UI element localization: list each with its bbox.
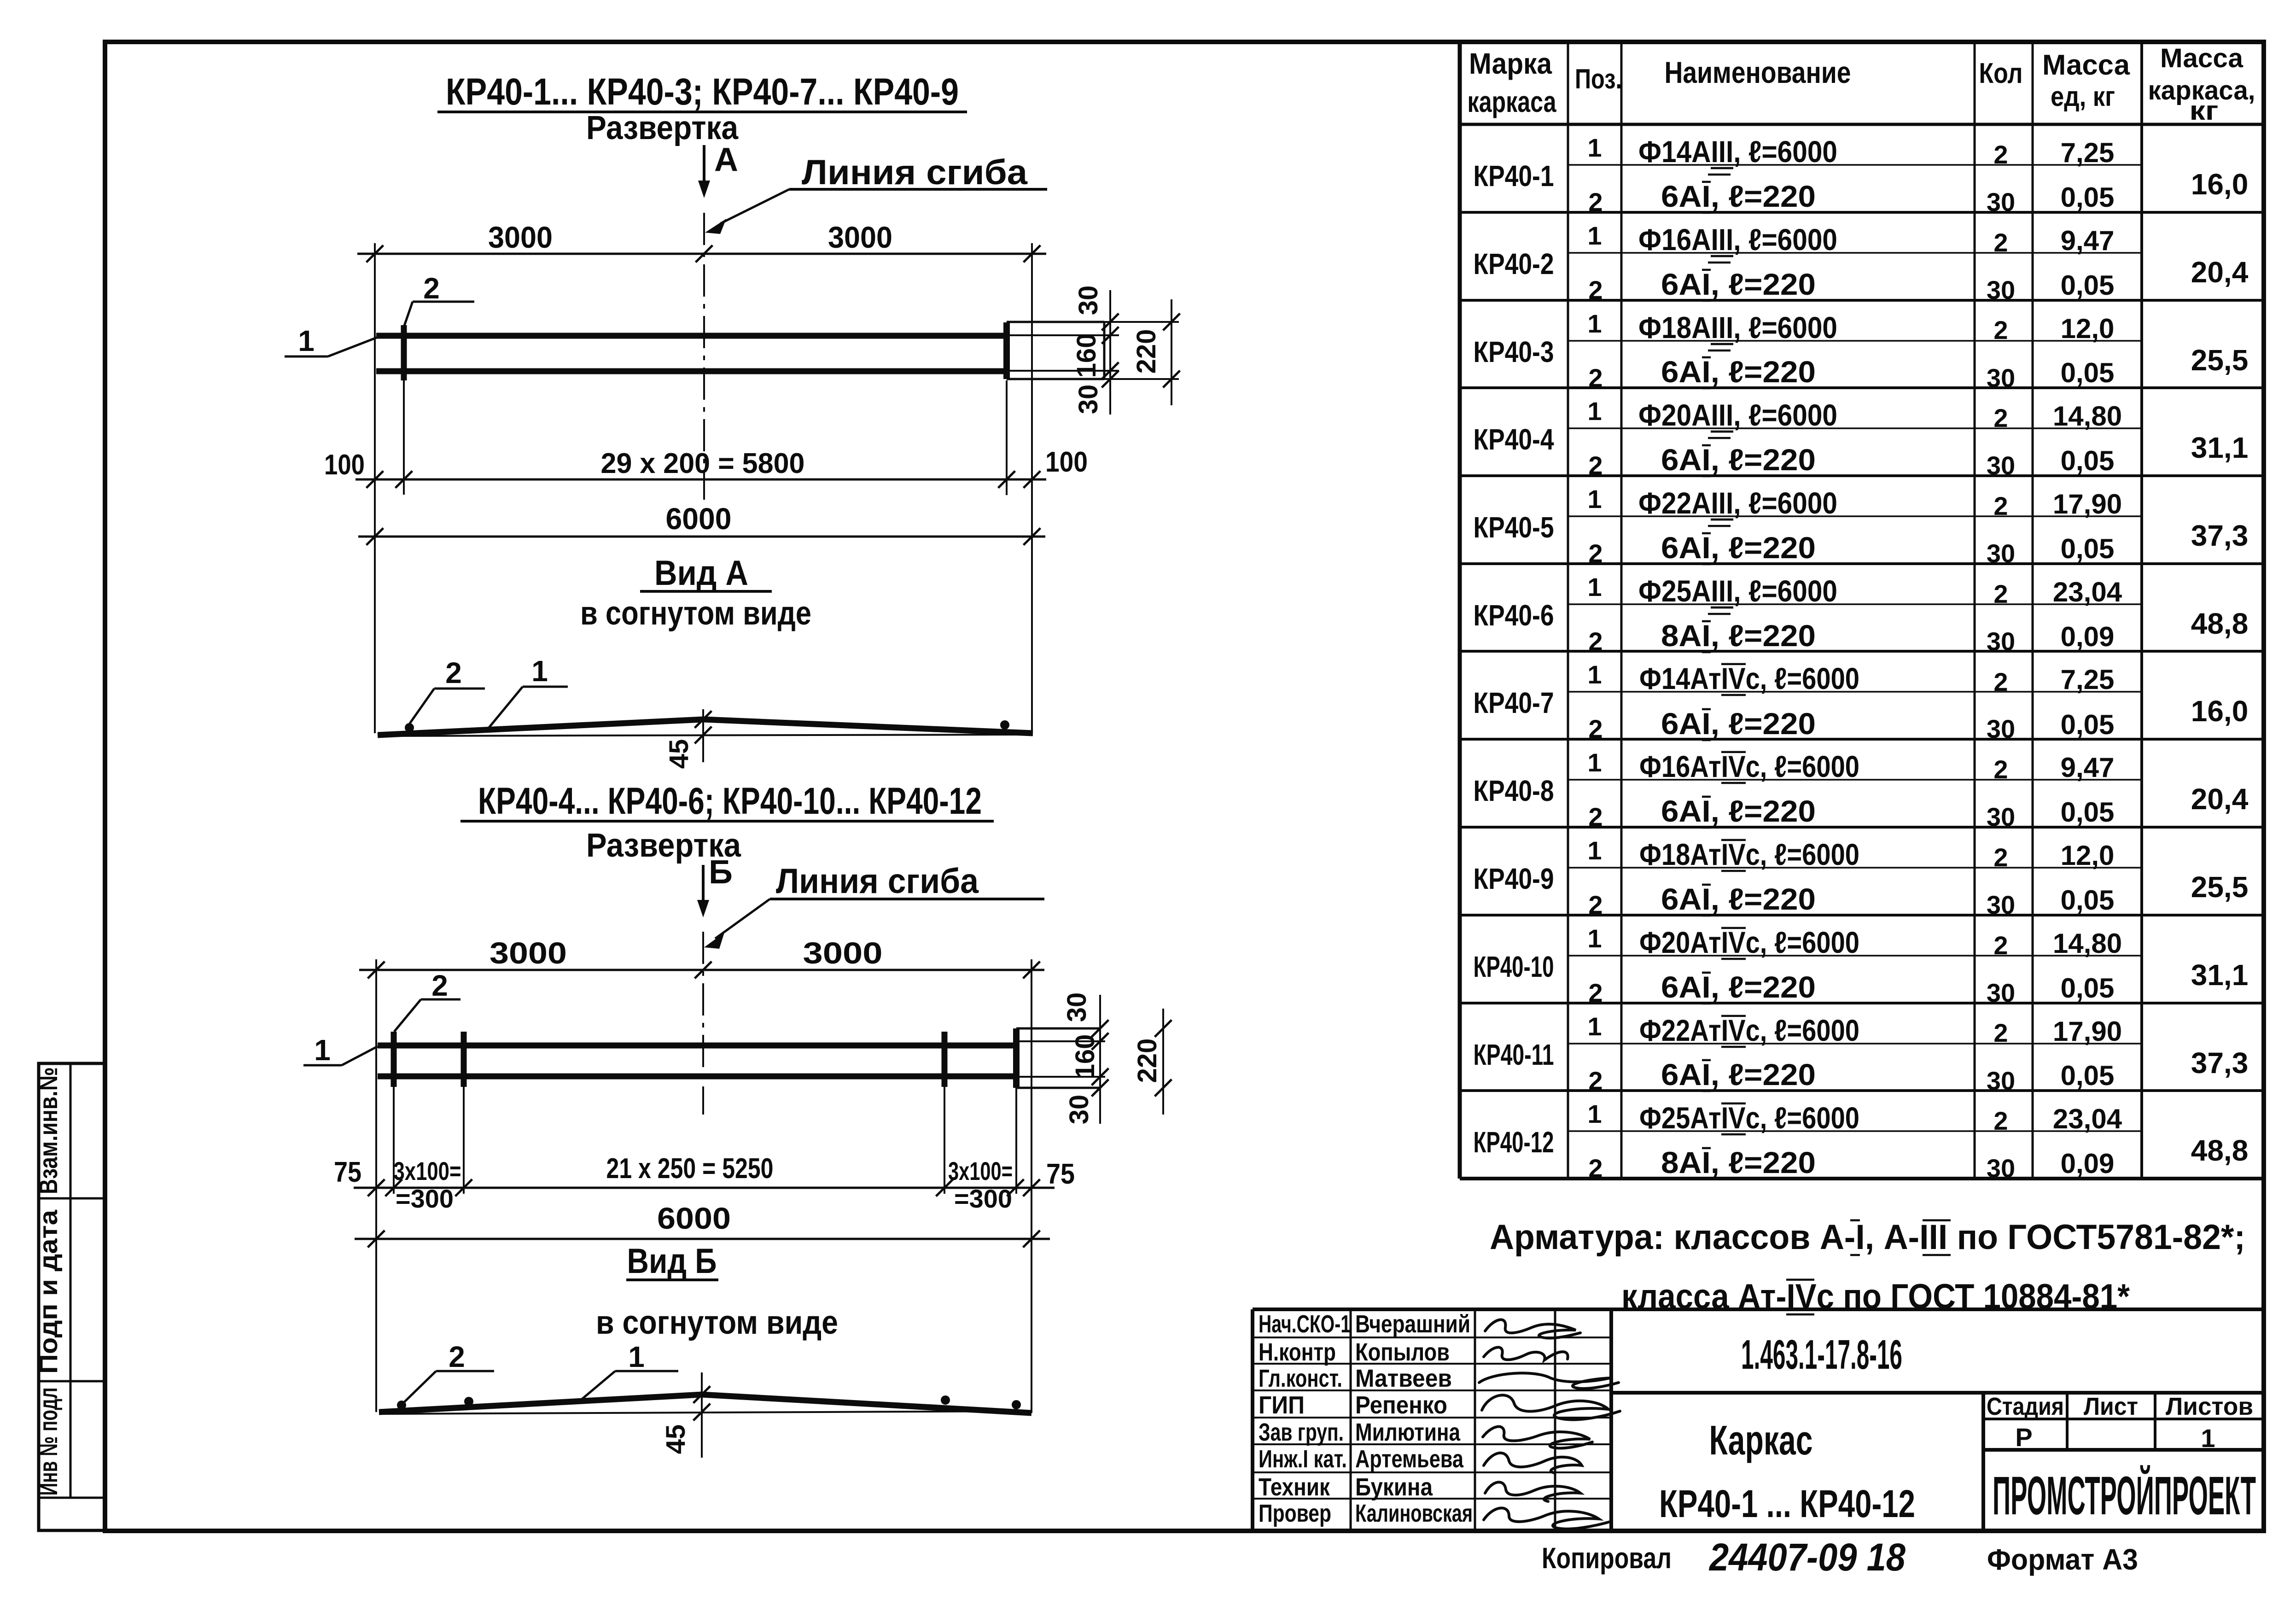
dimension 45 (view A) <box>664 709 711 769</box>
svg-text:25,5: 25,5 <box>2191 344 2249 377</box>
svg-text:1: 1 <box>2201 1424 2215 1453</box>
svg-text:КР40-1... КР40-3; КР40-7... КР: КР40-1... КР40-3; КР40-7... КР40-9 <box>446 71 959 113</box>
svg-text:Н.контр: Н.контр <box>1259 1338 1336 1366</box>
svg-text:КР40-2: КР40-2 <box>1474 247 1554 280</box>
dimension line 6000 (drawing B) <box>355 1201 1050 1247</box>
svg-text:6АI, ℓ=220: 6АI, ℓ=220 <box>1661 531 1816 565</box>
svg-text:30: 30 <box>1073 286 1103 315</box>
svg-text:220: 220 <box>1131 329 1161 374</box>
cross bar dots view B <box>397 1395 1021 1410</box>
svg-text:Подп и дата: Подп и дата <box>34 1209 63 1374</box>
footer handwritten 24407-09 18 <box>1708 1535 1906 1579</box>
stamp row Гл.конст. Матвеев <box>1259 1365 1452 1392</box>
svg-text:12,0: 12,0 <box>2061 840 2115 871</box>
table row КР40-11 <box>1474 1012 2249 1095</box>
svg-text:6АI, ℓ=220: 6АI, ℓ=220 <box>1661 1057 1816 1092</box>
svg-text:3000: 3000 <box>803 936 883 970</box>
svg-text:Марка: Марка <box>1469 47 1552 80</box>
svg-text:30: 30 <box>1987 451 2015 480</box>
reinforcement note line 1 <box>1490 1218 2245 1257</box>
svg-text:Ф20АтIVс, ℓ=6000: Ф20АтIVс, ℓ=6000 <box>1639 925 1859 959</box>
svg-text:Развертка: Развертка <box>586 110 739 146</box>
dimension line 75/300/5250/300/75 (drawing B) <box>334 1153 1075 1213</box>
svg-text:30: 30 <box>1987 890 2015 919</box>
cross bar pos.2 right (drawing B) <box>942 1032 948 1194</box>
bent end bar + flap (drawing B) <box>1016 1028 1105 1194</box>
svg-text:2: 2 <box>1588 1066 1603 1095</box>
table row КР40-12 <box>1474 1099 2249 1183</box>
dimension line 100 / 29x200=5800 / 100 (drawing A) <box>324 380 1088 495</box>
svg-text:48,8: 48,8 <box>2191 607 2249 640</box>
stamp row Зав груп. Милютина <box>1259 1419 1461 1446</box>
svg-text:=300: =300 <box>954 1184 1012 1213</box>
svg-text:Инж.I кат.: Инж.I кат. <box>1259 1445 1347 1473</box>
document number 1.463.1-17.8-16 <box>1741 1332 1902 1378</box>
svg-text:0,05: 0,05 <box>2061 709 2115 740</box>
extension line left (drawing B) <box>375 959 377 1412</box>
svg-text:1: 1 <box>298 324 315 357</box>
svg-text:30: 30 <box>1987 187 2015 216</box>
svg-text:2: 2 <box>1993 140 2008 169</box>
reinforcement note line 2 <box>1621 1277 2130 1316</box>
stamp row Н.контр Копылов <box>1259 1338 1450 1366</box>
mini table headers Стадия Лист Листов <box>1987 1393 2253 1453</box>
leader 2 (drawing A) <box>404 272 474 326</box>
table row КР40-8 <box>1474 748 2249 831</box>
svg-text:Милютина: Милютина <box>1355 1419 1461 1446</box>
svg-text:2: 2 <box>1588 275 1603 304</box>
svg-text:Инв № подл: Инв № подл <box>34 1388 63 1496</box>
svg-text:Вид А: Вид А <box>654 554 748 593</box>
svg-text:КР40-3: КР40-3 <box>1474 335 1554 368</box>
svg-text:2: 2 <box>1993 315 2008 344</box>
svg-text:Матвеев: Матвеев <box>1355 1365 1452 1392</box>
svg-text:6АI, ℓ=220: 6АI, ℓ=220 <box>1661 882 1816 916</box>
drawing B subtitle Развертка <box>586 827 741 864</box>
table row КР40-6 <box>1474 572 2249 656</box>
svg-text:Ф22АIII, ℓ=6000: Ф22АIII, ℓ=6000 <box>1638 486 1837 520</box>
svg-text:6АI, ℓ=220: 6АI, ℓ=220 <box>1661 267 1816 301</box>
extension line left (drawing A) <box>374 243 376 733</box>
svg-text:2: 2 <box>1993 931 2008 960</box>
svg-text:2: 2 <box>431 969 448 1002</box>
bar pos.1 bottom chord (drawing A) <box>376 368 1006 374</box>
svg-text:23,04: 23,04 <box>2053 1103 2122 1134</box>
svg-text:Лист: Лист <box>2084 1393 2138 1420</box>
svg-text:Стадия: Стадия <box>1987 1393 2064 1420</box>
svg-text:2: 2 <box>1993 1106 2008 1135</box>
leader 2 (view B) <box>402 1340 494 1404</box>
signature scribbles <box>1479 1319 1620 1529</box>
svg-text:Ф18АтIVс, ℓ=6000: Ф18АтIVс, ℓ=6000 <box>1639 837 1859 871</box>
svg-text:1: 1 <box>531 654 548 688</box>
svg-text:21 x 250 = 5250: 21 x 250 = 5250 <box>606 1153 774 1185</box>
svg-text:0,05: 0,05 <box>2061 357 2115 388</box>
svg-text:2: 2 <box>1993 1018 2008 1047</box>
cross bar pos.2 left (drawing A) <box>401 325 407 495</box>
table row КР40-2 <box>1474 221 2249 304</box>
svg-text:2: 2 <box>1588 802 1603 831</box>
svg-text:25,5: 25,5 <box>2191 870 2249 904</box>
svg-text:3000: 3000 <box>488 220 553 254</box>
svg-text:0,05: 0,05 <box>2061 445 2115 476</box>
svg-text:Техник: Техник <box>1259 1473 1330 1501</box>
svg-text:1: 1 <box>1587 836 1602 865</box>
svg-text:0,05: 0,05 <box>2061 797 2115 828</box>
svg-text:6АI, ℓ=220: 6АI, ℓ=220 <box>1661 794 1816 828</box>
svg-text:Артемьева: Артемьева <box>1355 1445 1464 1473</box>
svg-text:0,05: 0,05 <box>2061 533 2115 564</box>
svg-text:75: 75 <box>1046 1158 1075 1190</box>
leader 1 (view B) <box>577 1340 678 1403</box>
extension line right (drawing B) <box>1031 959 1032 1413</box>
svg-text:20,4: 20,4 <box>2191 256 2249 289</box>
svg-text:37,3: 37,3 <box>2191 1046 2249 1080</box>
svg-text:Каркас: Каркас <box>1709 1418 1813 1464</box>
footer Формат А3 <box>1987 1543 2138 1576</box>
svg-text:17,90: 17,90 <box>2053 1016 2122 1047</box>
svg-text:29 x 200 = 5800: 29 x 200 = 5800 <box>601 448 805 479</box>
svg-text:1: 1 <box>1587 397 1602 426</box>
svg-text:7,25: 7,25 <box>2061 137 2115 168</box>
vertical label Инв № подл <box>34 1388 63 1496</box>
stamp row Провер Калиновская <box>1259 1500 1473 1527</box>
bar pos.1 bottom chord (drawing B) <box>378 1074 1015 1080</box>
svg-text:2: 2 <box>1588 363 1603 392</box>
svg-text:Ф25АтIVс, ℓ=6000: Ф25АтIVс, ℓ=6000 <box>1639 1101 1859 1135</box>
drawing A title КР40-1...КР40-3; КР40-7...КР40-9 <box>437 71 967 113</box>
svg-text:Наименование: Наименование <box>1665 55 1851 89</box>
section arrow Б <box>697 854 733 917</box>
svg-text:2: 2 <box>1588 539 1603 568</box>
svg-text:Репенко: Репенко <box>1355 1391 1447 1419</box>
svg-text:160: 160 <box>1072 333 1101 378</box>
svg-text:1: 1 <box>1587 660 1602 689</box>
table row КР40-3 <box>1474 309 2249 392</box>
svg-text:Арматура: классов А-I, А-III: Арматура: классов А-I, А-III по ГОСТ5781… <box>1490 1218 2245 1257</box>
svg-text:30: 30 <box>1987 627 2015 656</box>
svg-text:6АI, ℓ=220: 6АI, ℓ=220 <box>1661 443 1816 477</box>
svg-text:30: 30 <box>1987 1066 2015 1095</box>
svg-text:7,25: 7,25 <box>2061 664 2115 695</box>
leader 1 (drawing A) <box>285 324 377 357</box>
svg-text:Вид Б: Вид Б <box>627 1242 717 1281</box>
svg-text:30: 30 <box>1064 1095 1094 1125</box>
svg-text:=300: =300 <box>396 1184 454 1213</box>
svg-text:1: 1 <box>1587 309 1602 338</box>
leader 2 (view A) <box>409 656 485 724</box>
svg-text:45: 45 <box>661 1424 691 1454</box>
svg-text:КР40-7: КР40-7 <box>1474 686 1554 719</box>
svg-text:КР40-11: КР40-11 <box>1474 1038 1554 1071</box>
svg-text:Калиновская: Калиновская <box>1355 1500 1473 1527</box>
svg-text:2: 2 <box>1993 491 2008 520</box>
svg-text:Ф16АIII, ℓ=6000: Ф16АIII, ℓ=6000 <box>1638 222 1837 257</box>
svg-text:Гл.конст.: Гл.конст. <box>1259 1365 1342 1392</box>
table row КР40-9 <box>1474 836 2249 919</box>
table header texts <box>1468 43 2255 126</box>
svg-text:75: 75 <box>334 1156 361 1188</box>
stamp row ГИП Репенко <box>1259 1391 1447 1419</box>
svg-text:Линия сгиба: Линия сгиба <box>802 153 1028 192</box>
svg-text:КР40-12: КР40-12 <box>1474 1126 1554 1159</box>
svg-text:16,0: 16,0 <box>2191 168 2249 201</box>
svg-text:30: 30 <box>1987 802 2015 831</box>
svg-text:3000: 3000 <box>490 936 567 970</box>
svg-text:Ф14АтIVс, ℓ=6000: Ф14АтIVс, ℓ=6000 <box>1639 661 1859 695</box>
svg-text:2: 2 <box>1993 579 2008 608</box>
svg-text:2: 2 <box>1588 714 1603 743</box>
svg-text:31,1: 31,1 <box>2191 958 2249 992</box>
svg-text:Ф14АIII, ℓ=6000: Ф14АIII, ℓ=6000 <box>1638 134 1837 169</box>
svg-text:100: 100 <box>324 449 365 481</box>
end dimension 30/160/30 (drawing A) <box>1072 286 1119 414</box>
label Линия сгиба (drawing A) <box>705 153 1047 234</box>
svg-text:1: 1 <box>1587 572 1602 601</box>
table row КР40-5 <box>1474 485 2249 568</box>
svg-text:30: 30 <box>1987 539 2015 568</box>
svg-text:30: 30 <box>1987 714 2015 743</box>
svg-text:3x100=: 3x100= <box>394 1156 461 1185</box>
svg-text:1: 1 <box>1587 924 1602 953</box>
svg-text:КР40-5: КР40-5 <box>1474 511 1554 544</box>
svg-text:2: 2 <box>1588 451 1603 480</box>
svg-text:КР40-8: КР40-8 <box>1474 774 1554 807</box>
svg-text:ГИП: ГИП <box>1259 1391 1305 1419</box>
svg-text:Ф16АтIVс, ℓ=6000: Ф16АтIVс, ℓ=6000 <box>1639 749 1859 783</box>
svg-text:1: 1 <box>1587 1012 1602 1041</box>
view A caption <box>580 554 811 632</box>
svg-text:14,80: 14,80 <box>2053 401 2122 432</box>
svg-text:2: 2 <box>1993 228 2008 257</box>
svg-text:6000: 6000 <box>666 502 732 536</box>
svg-text:2: 2 <box>1993 755 2008 784</box>
svg-text:100: 100 <box>1045 446 1088 478</box>
svg-text:37,3: 37,3 <box>2191 519 2249 552</box>
svg-text:1: 1 <box>1587 133 1602 162</box>
cross bar dots view A <box>405 720 1009 732</box>
svg-text:1: 1 <box>628 1340 645 1373</box>
left margin strip boxes <box>39 1063 105 1530</box>
svg-text:КР40-9: КР40-9 <box>1474 862 1554 895</box>
svg-text:Ф20АIII, ℓ=6000: Ф20АIII, ℓ=6000 <box>1638 398 1837 432</box>
svg-text:16,0: 16,0 <box>2191 695 2249 728</box>
svg-text:Б: Б <box>709 854 733 891</box>
fold line (dash-dot) drawing A <box>703 213 705 500</box>
svg-text:2: 2 <box>449 1340 465 1373</box>
svg-text:1: 1 <box>1587 748 1602 777</box>
table row КР40-7 <box>1474 660 2249 743</box>
svg-text:Масса: Масса <box>2160 43 2244 73</box>
extension line right (drawing A) <box>1031 243 1033 732</box>
table row КР40-10 <box>1474 924 2249 1007</box>
svg-text:ед, кг: ед, кг <box>2051 81 2115 112</box>
svg-text:2: 2 <box>423 272 440 305</box>
svg-text:КР40-10: КР40-10 <box>1474 950 1554 983</box>
svg-text:6000: 6000 <box>657 1201 731 1235</box>
svg-text:20,4: 20,4 <box>2191 782 2249 816</box>
svg-text:1: 1 <box>1587 485 1602 514</box>
specification table grid <box>1460 42 2264 1179</box>
svg-text:2: 2 <box>1588 187 1603 216</box>
dimension line 3000+3000 (drawing B) <box>359 936 1044 978</box>
vertical label Взам.инв.№ <box>34 1067 63 1194</box>
drawing A subtitle Развертка <box>586 110 739 146</box>
fold line (dash-dot) drawing B <box>702 932 704 1115</box>
svg-text:30: 30 <box>1987 363 2015 392</box>
svg-text:Копировал: Копировал <box>1542 1541 1672 1575</box>
table row КР40-1 <box>1474 133 2249 216</box>
footer Копировал <box>1542 1541 1672 1575</box>
svg-text:КР40-4... КР40-6; КР40-10... К: КР40-4... КР40-6; КР40-10... КР40-12 <box>478 780 982 822</box>
dimension line 3000+3000 (drawing A) <box>357 220 1046 262</box>
svg-text:А: А <box>714 141 738 178</box>
svg-text:КР40-1: КР40-1 <box>1474 159 1554 193</box>
svg-text:0,09: 0,09 <box>2061 1148 2115 1179</box>
dimension 45 (view B) <box>661 1372 710 1458</box>
svg-text:160: 160 <box>1070 1034 1100 1079</box>
svg-text:Взам.инв.№: Взам.инв.№ <box>34 1067 63 1194</box>
svg-text:30: 30 <box>1073 385 1103 414</box>
cross bar pos.2 left-1 (drawing B) <box>391 1032 397 1194</box>
vertical label Подп и дата <box>34 1209 63 1374</box>
end dimension 220 (drawing A) <box>1131 299 1180 405</box>
svg-text:3x100=: 3x100= <box>948 1156 1013 1185</box>
svg-text:Вчерашний: Вчерашний <box>1355 1310 1470 1338</box>
svg-text:8АI, ℓ=220: 8АI, ℓ=220 <box>1661 619 1816 653</box>
svg-text:12,0: 12,0 <box>2061 313 2115 344</box>
svg-text:1: 1 <box>314 1033 331 1067</box>
svg-text:45: 45 <box>664 739 694 769</box>
svg-text:Копылов: Копылов <box>1355 1338 1450 1366</box>
end dimension 30/160/30 (drawing B) <box>1062 992 1108 1125</box>
svg-text:Р: Р <box>2015 1423 2032 1452</box>
section arrow A <box>698 141 738 198</box>
drawing B title КР40-4...КР40-6; КР40-10...КР40-12 <box>460 780 994 822</box>
bar pos.1 top chord (drawing A) <box>376 333 1006 339</box>
title Каркас <box>1709 1418 1813 1464</box>
svg-text:2: 2 <box>1588 890 1603 919</box>
svg-text:6АI, ℓ=220: 6АI, ℓ=220 <box>1661 355 1816 389</box>
svg-text:Ф25АIII, ℓ=6000: Ф25АIII, ℓ=6000 <box>1638 574 1837 608</box>
svg-text:2: 2 <box>1993 843 2008 872</box>
svg-text:0,05: 0,05 <box>2061 182 2115 213</box>
bent bar view A <box>378 719 1033 736</box>
svg-text:Провер: Провер <box>1259 1500 1331 1527</box>
svg-text:6АI, ℓ=220: 6АI, ℓ=220 <box>1661 706 1816 741</box>
svg-text:Формат А3: Формат А3 <box>1987 1543 2138 1576</box>
cross bar pos.2 left-2 (drawing B) <box>461 1032 467 1194</box>
dimension line 6000 (drawing A) <box>358 502 1045 545</box>
leader 1 (drawing B) <box>303 1033 378 1067</box>
svg-text:1: 1 <box>1587 1099 1602 1128</box>
svg-text:0,05: 0,05 <box>2061 1060 2115 1091</box>
svg-text:Линия сгиба: Линия сгиба <box>776 862 979 901</box>
svg-text:24407-09 18: 24407-09 18 <box>1708 1535 1906 1579</box>
bar pos.1 top chord (drawing B) <box>378 1043 1015 1049</box>
svg-text:2: 2 <box>1993 667 2008 696</box>
svg-text:23,04: 23,04 <box>2053 577 2122 607</box>
bent end bar + flap (drawing A) <box>1007 322 1179 379</box>
svg-text:Поз.: Поз. <box>1575 64 1622 94</box>
svg-text:ПРОМСТРОЙПРОЕКТ: ПРОМСТРОЙПРОЕКТ <box>1993 1465 2256 1526</box>
svg-text:Ф22АтIVс, ℓ=6000: Ф22АтIVс, ℓ=6000 <box>1639 1013 1859 1047</box>
svg-text:Букина: Букина <box>1355 1473 1433 1501</box>
svg-text:6АI, ℓ=220: 6АI, ℓ=220 <box>1661 179 1816 213</box>
svg-text:30: 30 <box>1062 992 1092 1022</box>
title block grid <box>1253 1309 2264 1530</box>
label Линия сгиба (drawing B) <box>704 862 1044 949</box>
svg-text:2: 2 <box>1588 1154 1603 1183</box>
svg-text:Нач.СКО-1: Нач.СКО-1 <box>1259 1310 1351 1338</box>
stamp row Инж.I кат. Артемьева <box>1259 1445 1464 1473</box>
svg-text:КР40-4: КР40-4 <box>1474 423 1554 456</box>
svg-text:14,80: 14,80 <box>2053 928 2122 959</box>
svg-text:Зав груп.: Зав груп. <box>1259 1419 1344 1446</box>
svg-text:Масса: Масса <box>2042 49 2130 81</box>
svg-text:48,8: 48,8 <box>2191 1134 2249 1167</box>
svg-text:6АI, ℓ=220: 6АI, ℓ=220 <box>1661 970 1816 1004</box>
svg-text:31,1: 31,1 <box>2191 431 2249 464</box>
svg-text:1.463.1-17.8-16: 1.463.1-17.8-16 <box>1741 1332 1902 1378</box>
view B caption <box>596 1242 838 1341</box>
leader 2 (drawing B) <box>394 969 460 1032</box>
organization ПРОМСТРОЙПРОЕКТ <box>1993 1465 2256 1526</box>
svg-text:Кол: Кол <box>1979 58 2023 89</box>
svg-text:17,90: 17,90 <box>2053 489 2122 520</box>
svg-text:в согнутом виде: в согнутом виде <box>580 595 811 632</box>
bent bar view B <box>379 1395 1031 1414</box>
svg-text:0,05: 0,05 <box>2061 885 2115 916</box>
svg-text:30: 30 <box>1987 978 2015 1007</box>
end dimension 220 (drawing B) <box>1132 1009 1171 1115</box>
svg-text:каркаса: каркаса <box>1468 85 1556 118</box>
svg-text:3000: 3000 <box>828 220 892 254</box>
svg-text:30: 30 <box>1987 275 2015 304</box>
svg-text:30: 30 <box>1987 1154 2015 1183</box>
leader 1 (view A) <box>486 654 568 731</box>
svg-text:Листов: Листов <box>2166 1393 2253 1420</box>
svg-text:9,47: 9,47 <box>2061 225 2115 256</box>
svg-text:0,05: 0,05 <box>2061 973 2115 1004</box>
svg-text:0,09: 0,09 <box>2061 621 2115 652</box>
svg-text:кг: кг <box>2190 96 2219 126</box>
title КР40-1...КР40-12 <box>1659 1482 1915 1525</box>
svg-text:в согнутом виде: в согнутом виде <box>596 1304 838 1341</box>
stamp row Техник Букина <box>1259 1473 1433 1501</box>
stamp row Нач.СКО-1 Вчерашний <box>1259 1310 1470 1338</box>
svg-text:1: 1 <box>1587 221 1602 250</box>
svg-text:8АI, ℓ=220: 8АI, ℓ=220 <box>1661 1145 1816 1179</box>
svg-text:КР40-1 ... КР40-12: КР40-1 ... КР40-12 <box>1659 1482 1915 1525</box>
svg-text:2: 2 <box>1588 978 1603 1007</box>
svg-text:0,05: 0,05 <box>2061 270 2115 301</box>
svg-text:2: 2 <box>1993 403 2008 432</box>
svg-text:220: 220 <box>1132 1039 1162 1083</box>
svg-text:Ф18АIII, ℓ=6000: Ф18АIII, ℓ=6000 <box>1638 310 1837 344</box>
svg-text:9,47: 9,47 <box>2061 752 2115 783</box>
svg-text:КР40-6: КР40-6 <box>1474 599 1554 632</box>
svg-text:2: 2 <box>445 656 462 689</box>
table row КР40-4 <box>1474 397 2249 480</box>
svg-text:2: 2 <box>1588 627 1603 656</box>
